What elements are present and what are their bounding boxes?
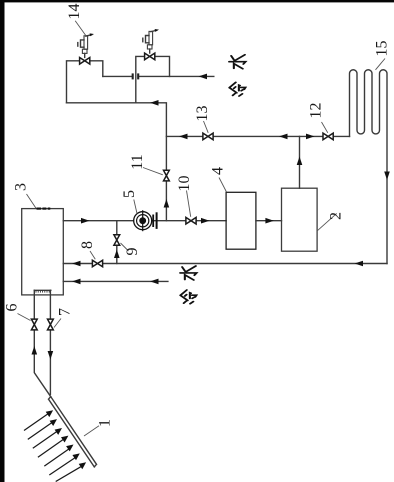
- tank bottom stub with hatch: [34, 290, 51, 292]
- wire: valve 9 branch: [116, 221, 118, 264]
- wire: left loop (tank A): [67, 61, 103, 103]
- wire: pump suction line tank->pump: [63, 220, 226, 222]
- arrow pump line into box4: [201, 218, 210, 224]
- box 4: [226, 192, 256, 249]
- arrow up on valve9 branch: [114, 250, 120, 259]
- label 12 leader: [322, 122, 328, 133]
- svg-text:2: 2: [328, 212, 345, 220]
- arrow down on coil outlet: [384, 172, 390, 181]
- valve V12: [323, 133, 333, 140]
- arrow on cold water top line (left): [199, 74, 208, 80]
- actuator on valve V14a: [78, 33, 94, 57]
- arrow toward valve 12 (right): [306, 134, 315, 140]
- arrow into tank on cold line: [72, 279, 81, 285]
- border line top: [0, 0, 394, 2]
- svg-text:7: 7: [57, 308, 74, 316]
- box 2: [282, 188, 318, 251]
- actuator on valve V14b: [143, 29, 159, 53]
- arrow down on pipe 7: [48, 351, 54, 360]
- label 1 leader: [84, 426, 99, 436]
- pump 5: [134, 210, 157, 231]
- wire: collector supply pipe (valve 6 side): [34, 290, 50, 396]
- label 4 leader: [219, 178, 227, 193]
- svg-text:13: 13: [194, 106, 211, 122]
- crossover symbol: [133, 73, 139, 79]
- svg-text:10: 10: [176, 176, 193, 192]
- svg-text:9: 9: [124, 248, 141, 256]
- coil heat exchanger 15: [350, 70, 388, 264]
- valve V9: [114, 235, 120, 246]
- label 7 leader: [54, 319, 61, 328]
- label 10 leader: [187, 191, 191, 217]
- wire: cold water top line: [103, 75, 214, 77]
- label 6 leader: [18, 314, 31, 321]
- valve V14a: [80, 58, 90, 65]
- label 15 leader: [376, 59, 386, 70]
- label 8 leader: [90, 251, 95, 259]
- tank 3: [22, 209, 64, 295]
- svg-text:15: 15: [374, 41, 391, 57]
- wire: right loop (tank B): [136, 56, 170, 102]
- arrow on upper line (left): [150, 100, 159, 106]
- arrow into box2: [265, 218, 274, 224]
- label 14 leader: [75, 21, 85, 36]
- valve V14b: [145, 53, 155, 60]
- arrow toward junction (left): [279, 134, 288, 140]
- valve V10: [186, 217, 196, 224]
- svg-text:12: 12: [308, 103, 325, 119]
- svg-text:1: 1: [97, 419, 114, 427]
- label 2 leader: [317, 213, 337, 231]
- wire: cold water bottom line: [63, 280, 168, 282]
- label 9 leader: [121, 243, 129, 251]
- wire: valves 12/13 line y=136.4: [166, 135, 349, 137]
- arrow on riser (up): [164, 199, 170, 208]
- arrow up on box2 riser: [297, 157, 303, 166]
- arrow up on pipe 6: [32, 346, 38, 355]
- border bar left: [0, 0, 5, 482]
- valve V6: [31, 319, 37, 330]
- label 3 leader: [27, 194, 37, 208]
- wire: collector return pipe (valve 7 side): [49, 290, 51, 394]
- arrow into tank on return line: [72, 261, 81, 267]
- valve V13: [203, 133, 213, 140]
- svg-text:8: 8: [79, 241, 96, 249]
- label 13 leader: [204, 121, 209, 133]
- wire: riser to box2: [299, 136, 301, 188]
- wire: return line y=263.5: [63, 263, 387, 265]
- sun rays arrows: [24, 410, 86, 481]
- label 11 leader: [143, 168, 163, 175]
- arrow tank to pump: [81, 218, 90, 224]
- svg-text:3: 3: [13, 183, 30, 191]
- valve V11: [164, 170, 170, 181]
- arrow on return line right: [355, 261, 364, 267]
- svg-text:5: 5: [121, 190, 138, 198]
- svg-text:11: 11: [129, 154, 146, 169]
- svg-text:4: 4: [210, 167, 227, 175]
- svg-text:14: 14: [66, 4, 83, 20]
- arrow mid cold line: [150, 279, 159, 285]
- wire: box4 to box2: [256, 220, 282, 222]
- label cold water (top): [229, 55, 245, 96]
- collector panel 1: [49, 397, 97, 467]
- arrow into riser junction: [179, 134, 188, 140]
- svg-text:6: 6: [4, 304, 21, 312]
- label 5 leader: [134, 200, 137, 214]
- wire: upper circuit line y=102.8: [67, 103, 167, 221]
- label cold water (bottom): [180, 266, 196, 304]
- valve V8: [92, 260, 102, 267]
- valve V7: [48, 319, 54, 330]
